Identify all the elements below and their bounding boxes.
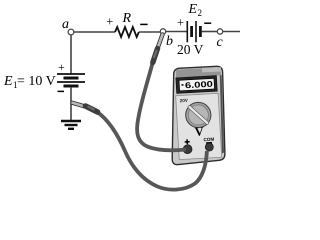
meter top bevel: [176, 67, 221, 77]
svg-text:E: E: [188, 2, 198, 17]
label - of E1: [58, 90, 65, 92]
svg-text:6.000: 6.000: [185, 79, 214, 91]
label + jack: [185, 141, 190, 143]
resistor R1: [115, 27, 139, 37]
black lead wire (ground probe to COM jack): [97, 112, 207, 190]
svg-text:= 10 V: = 10 V: [17, 74, 56, 89]
wire a to resistor: [74, 31, 115, 33]
svg-text:2: 2: [198, 8, 203, 18]
multimeter U1 body: [172, 66, 225, 164]
node a: [68, 29, 74, 35]
svg-text:+: +: [177, 15, 184, 29]
svg-text:b: b: [166, 34, 173, 49]
wire a down to E1: [70, 35, 72, 75]
display screen: [179, 78, 215, 91]
display bezel: [176, 76, 217, 94]
label - of R: [140, 23, 147, 25]
red lead wire (b probe to + jack): [137, 63, 186, 150]
node b: [160, 29, 165, 34]
jack COM: [205, 143, 213, 151]
svg-text:E: E: [3, 74, 13, 89]
svg-text:+: +: [106, 15, 113, 29]
meter right side shade: [220, 75, 224, 154]
wire b to E2: [166, 31, 188, 33]
svg-text:c: c: [217, 35, 224, 50]
svg-text:20V: 20V: [180, 98, 189, 104]
dial knob: [185, 102, 212, 129]
wire E2 to c: [202, 31, 218, 33]
svg-text:a: a: [62, 17, 69, 32]
svg-text:R: R: [122, 11, 132, 26]
wire c to right edge: [223, 31, 240, 33]
wire E1 to ground: [70, 87, 72, 121]
svg-text:COM: COM: [203, 137, 214, 143]
black probe at ground wire: [73, 103, 98, 112]
svg-text:20 V: 20 V: [177, 42, 204, 57]
ground: [61, 121, 81, 129]
battery E1: [57, 74, 85, 86]
battery E2: [187, 21, 200, 42]
label - of E2: [204, 22, 211, 24]
meter face panel: [176, 93, 222, 159]
svg-text:+: +: [58, 60, 65, 74]
display reading: [181, 79, 213, 91]
jack +: [183, 145, 192, 154]
red probe at node b: [153, 35, 163, 63]
wire resistor to b: [139, 31, 161, 33]
node c: [217, 29, 222, 34]
